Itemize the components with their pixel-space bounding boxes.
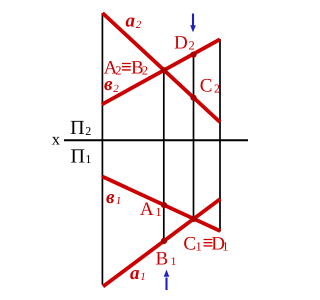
line b1 [102,177,220,232]
point B1 [161,238,167,244]
point D2 [190,52,196,58]
point C2 [190,95,196,101]
arrow down (top) [190,14,196,33]
projection line D2-C1 [193,54,195,220]
svg-text:a2: a2 [126,11,142,32]
svg-text:a1: a1 [130,263,146,284]
point A1 [161,202,167,208]
line a1 [103,199,220,287]
arrow up (bottom) [164,270,170,290]
svg-text:D2: D2 [174,33,195,54]
svg-text:B1: B1 [156,249,177,270]
line a2 [103,13,220,122]
projection line A2-B1 [163,70,165,241]
point A2=B2 [161,67,167,73]
svg-text:C1≡D1: C1≡D1 [183,233,228,255]
svg-text:Π1: Π1 [71,146,92,168]
svg-text:Π2: Π2 [70,117,91,139]
svg-text:в1: в1 [106,187,121,208]
svg-text:C2: C2 [200,76,220,97]
point C1=D1 [191,216,197,222]
projection line through a ends [101,13,103,285]
svg-text:x: x [52,130,61,149]
line b2 [102,39,220,104]
axis x [64,139,248,141]
projection line right [219,39,221,232]
